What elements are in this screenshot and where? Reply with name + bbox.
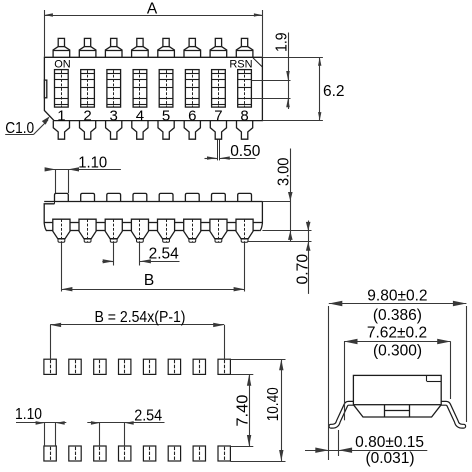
svg-text:1.10: 1.10 xyxy=(78,155,107,172)
svg-text:9.80±0.2: 9.80±0.2 xyxy=(367,288,427,305)
svg-text:1.10: 1.10 xyxy=(15,406,42,423)
svg-text:(0.386): (0.386) xyxy=(373,307,422,324)
svg-text:7.62±0.2: 7.62±0.2 xyxy=(367,325,427,342)
svg-text:2.54: 2.54 xyxy=(149,245,180,262)
svg-text:0.80±0.15: 0.80±0.15 xyxy=(355,434,424,451)
svg-text:2.54: 2.54 xyxy=(134,407,162,424)
svg-text:B: B xyxy=(144,272,154,289)
svg-text:5: 5 xyxy=(162,108,170,125)
svg-text:4: 4 xyxy=(136,108,144,125)
svg-text:6: 6 xyxy=(188,108,196,125)
svg-text:3: 3 xyxy=(110,108,118,125)
svg-text:1: 1 xyxy=(57,108,65,125)
svg-text:10.40: 10.40 xyxy=(265,387,282,421)
svg-text:ON: ON xyxy=(54,58,71,70)
svg-text:8: 8 xyxy=(240,108,248,125)
svg-text:(0.031): (0.031) xyxy=(365,450,414,467)
svg-text:1.9: 1.9 xyxy=(273,32,290,52)
svg-text:7: 7 xyxy=(214,108,222,125)
svg-text:6.2: 6.2 xyxy=(323,83,345,100)
svg-text:7.40: 7.40 xyxy=(234,394,251,426)
svg-text:B = 2.54x(P-1): B = 2.54x(P-1) xyxy=(95,309,186,326)
svg-text:2: 2 xyxy=(83,108,91,125)
svg-text:(0.300): (0.300) xyxy=(373,343,422,360)
svg-text:0.50: 0.50 xyxy=(230,143,261,160)
svg-text:0.70: 0.70 xyxy=(294,254,311,285)
svg-text:A: A xyxy=(147,0,158,17)
svg-text:RSN: RSN xyxy=(229,59,252,71)
svg-text:3.00: 3.00 xyxy=(275,157,292,186)
